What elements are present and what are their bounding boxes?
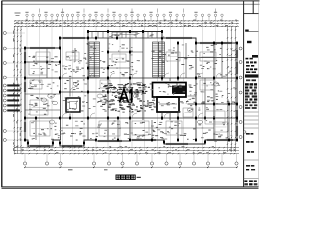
interior wall x229 part <box>228 104 230 140</box>
furniture outlines <box>29 52 228 136</box>
left dimension ticks <box>14 29 22 146</box>
interior wall x186 part <box>185 43 187 78</box>
staircase left hatch <box>89 42 100 77</box>
interior wall y92 seg <box>60 91 143 93</box>
bottom dimension value texts <box>16 146 235 153</box>
left legend bubbles and labels <box>3 84 20 112</box>
interior wall x88 <box>87 32 89 141</box>
interior wall y128 seg <box>60 127 214 129</box>
left shaft thick square <box>66 98 80 112</box>
unit label A1 <box>120 89 132 103</box>
bottom grid bubbles <box>23 154 238 165</box>
sheet bottom border outer <box>2 186 259 188</box>
center core upper thick walls <box>153 83 187 98</box>
top dimension value texts <box>16 20 237 26</box>
interior wall x75 upper <box>74 48 76 62</box>
center core lower thick walls <box>157 97 179 112</box>
top dimension tick marks <box>14 20 237 27</box>
interior wall y52 mid <box>108 51 143 53</box>
sheet left border <box>1 1 3 187</box>
right dimension chain line 2 <box>231 26 233 152</box>
interior wall x170 part <box>169 78 171 120</box>
interior wall y104 seg <box>162 103 237 105</box>
title block row line y31 <box>247 30 258 32</box>
left shaft inner mark <box>70 102 77 109</box>
interior wall y118 <box>25 117 237 119</box>
interior wall y110 seg <box>25 109 60 111</box>
left dimension chain line 1 <box>13 26 15 154</box>
bathroom fixtures <box>41 82 219 124</box>
scale note top left 2 <box>16 14 20 17</box>
sheet right border <box>258 1 260 187</box>
center core inner lines <box>159 103 177 105</box>
door swing arcs <box>62 73 221 118</box>
center core white backing <box>152 81 188 113</box>
bottom overall dimension text <box>68 169 73 170</box>
interior wall x222 part <box>221 43 223 78</box>
interior wall x205 part <box>204 78 206 118</box>
title block bubble <box>244 131 246 133</box>
sheet top border outer <box>2 0 260 2</box>
interior wall x162 <box>161 32 163 121</box>
bottom dimension chain line 2 <box>14 150 239 152</box>
bottom dimension chain line 3 <box>14 153 239 155</box>
interior wall x178 <box>177 43 179 140</box>
left dimension chain line 3 <box>20 26 22 154</box>
bottom overall dimension text 2 <box>104 169 108 170</box>
interior wall x196 <box>195 43 197 140</box>
top duct room dividers <box>88 32 162 39</box>
title block header underline <box>244 13 259 15</box>
interior wall y78 <box>25 77 237 79</box>
title block top sub divider <box>252 1 254 14</box>
interior wall x36 part <box>35 118 37 140</box>
right dimension chain line 1 <box>227 26 229 152</box>
interior wall x70 part <box>69 78 71 118</box>
interior wall x130 <box>129 38 131 140</box>
center core inner black block <box>172 86 186 95</box>
caption suffix <box>137 177 141 178</box>
interior wall y57 right <box>178 57 237 59</box>
tiny text annotations <box>28 33 235 142</box>
right dimension ticks <box>227 29 236 145</box>
interior wall y96 seg <box>162 95 196 97</box>
scale note top left <box>15 13 21 14</box>
top dimension chain line 1 <box>14 20 239 22</box>
drawing caption glyphs <box>116 175 135 179</box>
top grid bubbles row <box>26 14 223 21</box>
top dimension chain line 3 <box>14 25 239 27</box>
title block text blocks <box>244 30 258 186</box>
top grid bubble labels <box>25 9 217 13</box>
left dimension value texts <box>13 31 21 151</box>
sheet bottom border inner <box>2 187 259 189</box>
bottom overall dimension line <box>25 166 237 168</box>
top dimension chain line 2 <box>14 23 239 25</box>
interior wall y62 left <box>25 61 60 63</box>
interior wall x152 part <box>151 120 153 140</box>
interior wall y94 left <box>25 93 60 95</box>
interior wall x47 part <box>46 48 48 78</box>
title block divider vertical <box>243 1 245 187</box>
wall piers <box>24 30 238 144</box>
bottom dimension chain line 1 <box>14 147 239 149</box>
title block ruling lines <box>244 112 259 179</box>
staircase right hatch <box>153 42 165 77</box>
interior wall y68 mid <box>88 67 130 69</box>
left dimension chain line 2 <box>17 26 19 154</box>
interior wall x60 <box>60 48 62 140</box>
building outer wall outline <box>25 32 237 147</box>
left shaft white backing <box>65 97 82 114</box>
interior wall x118 part <box>117 118 119 140</box>
dense text around unit label <box>102 83 152 112</box>
interior wall x214 <box>213 43 215 140</box>
interior wall x143 <box>142 32 144 121</box>
right grid bubbles <box>239 47 242 139</box>
right dimension chain line 3 <box>235 26 237 152</box>
left grid bubbles <box>3 32 25 142</box>
bottom dimension ticks <box>14 147 235 154</box>
interior wall x108 <box>107 38 109 140</box>
sheet top border inner <box>2 3 260 5</box>
vertical grid lines <box>27 21 216 151</box>
bottom overall dimension ticks <box>24 166 238 168</box>
window double lines <box>24 33 238 147</box>
